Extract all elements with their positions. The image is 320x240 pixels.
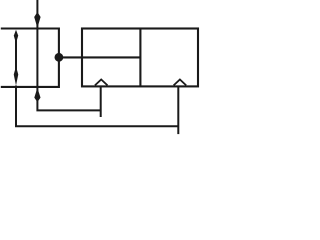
wire: port 1 stub down bbox=[100, 86, 102, 117]
port triangle 2 (right cell) bbox=[174, 80, 187, 86]
junction dot bbox=[55, 53, 64, 62]
arrowhead up (below bottom-left rail) bbox=[34, 88, 40, 101]
double-headed arrow shaft bbox=[15, 34, 17, 72]
divider between cells bbox=[139, 29, 141, 87]
valve body: two-cell rectangle bbox=[82, 29, 198, 87]
port triangle 1 (left cell) bbox=[95, 80, 108, 86]
wire: port 2 down to bottom bbox=[177, 86, 179, 134]
arrowhead up (top of double arrow) bbox=[14, 30, 18, 41]
wire: dot to divider (pilot line) bbox=[59, 56, 140, 58]
arrowhead down (bottom of double arrow) bbox=[14, 70, 19, 86]
wire: from double arrow down to bottom bus bbox=[16, 86, 178, 127]
wire: left C-frame (top rail, right vertical, bottom rail) bbox=[1, 29, 59, 87]
arrowhead down (top, above left rail) bbox=[34, 13, 40, 28]
wire: central vertical (top edge down, corner right to port 1) bbox=[37, 0, 100, 110]
